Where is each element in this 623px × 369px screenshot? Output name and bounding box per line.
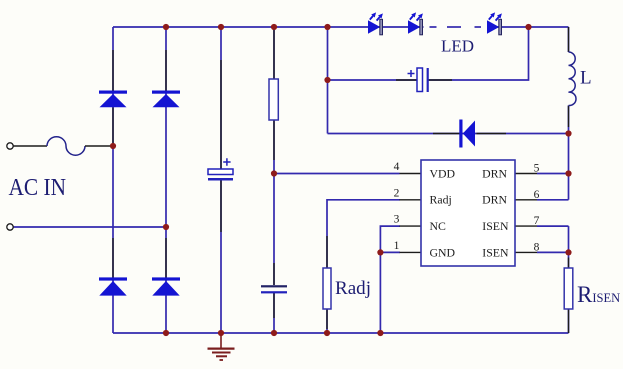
wire LED string dashed segment 1 — [430, 26, 437, 28]
wire black lead RISEN top — [568, 258, 570, 269]
junction bottom rail at bridge — [163, 330, 169, 336]
svg-text:AC IN: AC IN — [9, 174, 67, 201]
svg-text:8: 8 — [534, 241, 540, 253]
svg-text:2: 2 — [394, 187, 400, 199]
junction AC lower to bridge — [163, 224, 169, 230]
wire black lead C3 — [396, 79, 452, 81]
junction fuse to bridge — [110, 143, 116, 149]
wire black lead Radj — [326, 236, 328, 329]
svg-text:4: 4 — [394, 161, 400, 173]
svg-text:6: 6 — [534, 189, 540, 201]
junction bottom rail at ground — [218, 330, 224, 336]
wire R1/C2 column upper — [273, 27, 275, 285]
junction bottom rail at GND column — [377, 330, 383, 336]
junction top rail at C1 — [218, 24, 224, 30]
svg-text:DRN: DRN — [482, 193, 507, 207]
wire GND pin1 — [380, 252, 400, 333]
svg-text:1: 1 — [394, 240, 400, 252]
diode D2 — [152, 91, 180, 108]
wire black stub pin7 — [515, 225, 537, 227]
diode D3 — [99, 277, 127, 295]
wire pin5 — [537, 173, 569, 175]
wire black lead R1 — [273, 30, 275, 160]
wire black stub pin5 — [515, 173, 537, 175]
junction top rail at R1 — [271, 24, 277, 30]
wire fuse right lead — [85, 145, 113, 147]
svg-text:VDD: VDD — [430, 166, 456, 180]
wire node A vertical — [327, 27, 329, 134]
wire pin8 — [537, 251, 569, 253]
junction bottom rail at C2 — [271, 330, 277, 336]
wire black lead RISEN — [568, 309, 570, 333]
wire black stub pin4 — [400, 173, 422, 175]
ground — [208, 333, 235, 360]
wire black stub pin8 — [515, 251, 537, 253]
wire Radj bottom — [326, 309, 328, 333]
svg-text:DRN: DRN — [482, 166, 507, 180]
svg-text:GND: GND — [430, 245, 456, 259]
wire fuse left lead — [13, 145, 47, 147]
wire black lead C2 — [273, 263, 275, 318]
junction pin5 to drain node — [565, 170, 571, 176]
wire pin7 to pin8 vertical — [568, 226, 570, 268]
svg-text:L: L — [580, 68, 592, 89]
wire C1 column upper — [220, 27, 222, 169]
wire black lead C1 — [220, 60, 222, 232]
wire pin7 — [537, 225, 569, 227]
wire C3 to LED junction — [429, 27, 529, 80]
junction LED string output — [525, 24, 531, 30]
diode D5 — [459, 120, 475, 148]
svg-text:ISEN: ISEN — [482, 219, 509, 233]
svg-text:5: 5 — [534, 163, 540, 175]
wire RISEN bottom — [568, 309, 570, 333]
wire C3 branch horizontal — [328, 79, 418, 81]
junction pin8 to RISEN — [565, 249, 571, 255]
resistor RISEN — [564, 268, 573, 309]
wire AC lower line — [14, 226, 167, 228]
diode D4 — [152, 277, 180, 295]
wire pin6 — [537, 199, 569, 201]
wire black stub pin3 — [400, 225, 422, 227]
junction D5 cathode to L — [565, 130, 571, 136]
wire LED string dashed segment 2 — [447, 26, 461, 28]
junction pin1 pin3 — [377, 249, 383, 255]
inductor L1 — [569, 52, 577, 106]
wire black stub pin2 — [400, 199, 422, 201]
wire bridge right column — [165, 27, 167, 333]
LED LED2 — [408, 12, 423, 34]
wire inductor branch — [568, 27, 570, 200]
wire black lead D4 upper — [165, 238, 167, 278]
wire C1 column lower — [220, 181, 222, 334]
wire black stub pin6 — [515, 199, 537, 201]
wire black lead D1 upper — [112, 50, 114, 146]
junction VDD branch — [271, 170, 277, 176]
capacitor C2 — [261, 285, 287, 293]
resistor Radj — [323, 268, 331, 309]
capacitor C3 — [408, 68, 428, 92]
svg-text:Radj: Radj — [335, 278, 371, 299]
wire black lead D5 — [433, 133, 506, 135]
wire black stub pin1 — [400, 251, 422, 253]
wire black lead D2 upper — [165, 50, 167, 91]
diode D1 — [99, 91, 127, 108]
LED LED1 — [368, 12, 383, 34]
wire LED string dashed segment 3 — [475, 26, 482, 28]
wire bridge left column — [112, 27, 114, 333]
resistor R1 — [269, 79, 278, 120]
LED LED3 — [487, 12, 502, 34]
AC input terminal upper — [7, 143, 13, 149]
wire D5 horizontal — [328, 133, 569, 135]
svg-text:ISEN: ISEN — [482, 245, 509, 259]
wire black lead D3 upper — [112, 238, 114, 278]
svg-text:Radj: Radj — [430, 193, 452, 207]
capacitor C1 — [208, 158, 233, 180]
AC input terminal lower — [7, 224, 13, 230]
wire top rail right segment — [487, 26, 569, 28]
wire black lead L1 — [568, 27, 570, 127]
svg-text:7: 7 — [534, 215, 540, 227]
wire top rail left segment — [113, 26, 424, 28]
junction bottom rail at Radj — [324, 330, 330, 336]
wire NC pin3 — [380, 226, 400, 252]
wire R1/C2 column lower — [273, 293, 275, 333]
svg-text:3: 3 — [394, 214, 400, 226]
junction C3 branch — [324, 77, 330, 83]
svg-text:NC: NC — [430, 219, 447, 233]
wire bottom rail — [113, 332, 569, 334]
junction top rail at bridge right — [163, 24, 169, 30]
wire Radj pin2 — [327, 200, 400, 268]
fuse F1 curve — [47, 137, 85, 155]
IC U1 — [421, 160, 515, 266]
junction top rail at node A — [324, 24, 330, 30]
svg-text:LED: LED — [441, 36, 474, 55]
wire VDD pin4 — [274, 173, 400, 175]
